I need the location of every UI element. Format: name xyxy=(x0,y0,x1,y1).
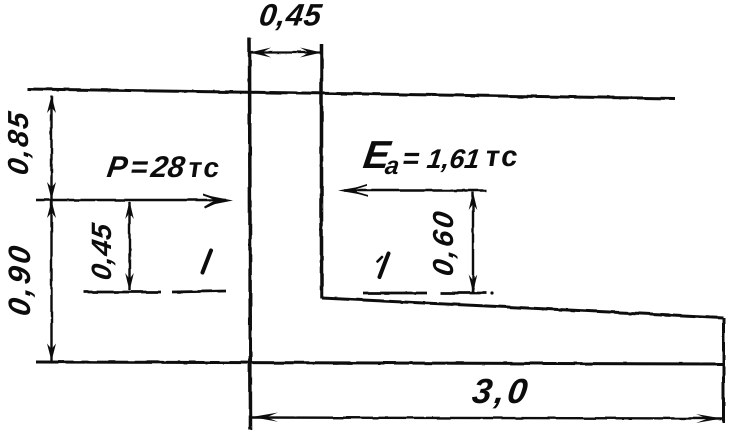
arrowhead left dim bottom down xyxy=(47,344,56,362)
section line 1-1 right dash b xyxy=(440,292,487,295)
section line 1-1 left dash b xyxy=(172,291,226,292)
svg-text:0,60: 0,60 xyxy=(428,207,460,278)
base bottom line xyxy=(36,362,724,364)
wall stem right edge xyxy=(320,44,324,298)
arrowhead force P xyxy=(205,195,233,206)
arrowhead small 0,45 down xyxy=(125,273,134,291)
force Ea line xyxy=(344,189,486,192)
section mark 1 left xyxy=(203,251,212,273)
svg-text:3,0: 3,0 xyxy=(470,372,533,411)
label P = 28 tc xyxy=(105,151,224,184)
arrowhead 0,45 top right xyxy=(300,48,322,58)
section line 1-1 right dash a xyxy=(363,292,427,295)
arrowhead 0,45 top left xyxy=(250,48,272,58)
arrowhead 0,60 down xyxy=(469,275,478,293)
force P line xyxy=(36,199,226,202)
arrowhead left dim top up xyxy=(47,96,56,114)
label Ea = 1,61 tc xyxy=(360,134,522,180)
ground line xyxy=(27,89,675,99)
label 3,0 xyxy=(470,372,533,411)
arrowhead left dim mid up xyxy=(47,201,56,219)
arrowhead 3,0 right xyxy=(696,414,722,423)
arrowhead left dim mid down xyxy=(47,182,56,200)
slab top edge xyxy=(322,298,724,318)
svg-text:P=28тс: P=28тс xyxy=(105,151,224,184)
svg-text:0,90: 0,90 xyxy=(2,241,37,318)
section line right end dot xyxy=(490,291,493,294)
arrowhead 3,0 left xyxy=(252,413,278,422)
left vertical dimension line xyxy=(50,96,52,362)
slab right edge xyxy=(722,318,725,424)
dimension line 0,45 top xyxy=(250,51,321,53)
svg-text:0,85: 0,85 xyxy=(3,108,35,177)
label 0,45 top xyxy=(257,0,324,32)
svg-text:0,45: 0,45 xyxy=(257,0,324,32)
section line 1-1 left dash a xyxy=(84,291,161,294)
dimension line 0,45 small xyxy=(128,202,130,290)
bottom dimension line 3,0 xyxy=(252,418,722,419)
arrowhead force Ea xyxy=(338,186,364,195)
svg-text:0,45: 0,45 xyxy=(86,221,117,282)
arrowhead 0,60 up xyxy=(469,192,478,210)
dimension line 0,60 xyxy=(472,192,474,292)
wall stem left edge xyxy=(250,38,251,430)
section mark 1 right xyxy=(380,254,389,278)
arrowhead small 0,45 up xyxy=(125,201,134,219)
